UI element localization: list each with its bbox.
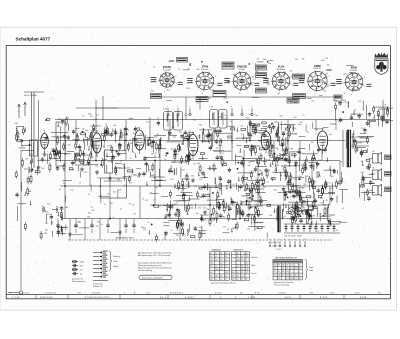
svg-text:560: 560 xyxy=(251,215,254,217)
svg-text:8,4: 8,4 xyxy=(237,253,239,255)
svg-text:0,3: 0,3 xyxy=(299,268,301,270)
svg-text:100k: 100k xyxy=(80,261,84,263)
svg-text:0,5M: 0,5M xyxy=(320,60,324,62)
svg-text:70: 70 xyxy=(326,208,328,210)
svg-text:5k: 5k xyxy=(210,216,212,218)
svg-text:12: 12 xyxy=(225,279,227,281)
svg-text:Alle Spannungen 110 - 220 2V: Alle Spannungen 110 - 220 2V veränd xyxy=(138,254,170,257)
svg-text:47k: 47k xyxy=(66,118,69,120)
svg-text:220: 220 xyxy=(84,172,87,174)
svg-text:50p: 50p xyxy=(327,64,330,66)
svg-text:1n: 1n xyxy=(230,121,232,123)
svg-text:50p: 50p xyxy=(117,168,120,170)
svg-text:5 4 3 2 1: 5 4 3 2 1 xyxy=(278,293,287,295)
svg-text:100k: 100k xyxy=(126,167,130,169)
svg-text:47k: 47k xyxy=(218,177,221,179)
svg-text:12k: 12k xyxy=(176,235,179,237)
svg-text:300: 300 xyxy=(118,143,121,145)
svg-text:45: 45 xyxy=(220,253,222,255)
svg-text:27k: 27k xyxy=(183,195,186,197)
svg-text:560: 560 xyxy=(250,135,253,137)
svg-text:0,5M: 0,5M xyxy=(74,226,79,228)
svg-text:10n: 10n xyxy=(284,124,287,126)
svg-text:15k: 15k xyxy=(247,229,250,231)
svg-text:110 125 220V~ 50Hz: 110 125 220V~ 50Hz xyxy=(284,236,302,238)
svg-text:0,1: 0,1 xyxy=(80,269,83,271)
svg-text:47k: 47k xyxy=(108,161,111,163)
svg-text:0,25: 0,25 xyxy=(225,207,229,209)
svg-text:300: 300 xyxy=(247,165,250,167)
svg-text:2M: 2M xyxy=(291,148,294,150)
svg-text:10n: 10n xyxy=(179,131,182,133)
svg-text:0,5M: 0,5M xyxy=(107,146,112,148)
svg-text:5n: 5n xyxy=(232,146,234,148)
svg-text:30p: 30p xyxy=(268,63,271,65)
svg-text:220k: 220k xyxy=(223,98,227,100)
svg-text:6 1 4 8: 6 1 4 8 xyxy=(360,297,367,299)
svg-text:2M: 2M xyxy=(200,197,203,199)
svg-text:45: 45 xyxy=(246,253,248,255)
svg-text:o: o xyxy=(251,106,252,108)
svg-text:Taste in Tastenfolge: Taste in Tastenfolge xyxy=(274,284,289,287)
svg-text:100k: 100k xyxy=(298,176,302,178)
svg-text:5k: 5k xyxy=(142,199,144,201)
svg-text:1M: 1M xyxy=(219,116,222,118)
svg-text:5k: 5k xyxy=(132,205,134,207)
svg-text:68p: 68p xyxy=(233,74,236,76)
svg-text:Alle Spannungen 110V Stel. 20: Alle Spannungen 110V Stel. 20 mV/Vrg xyxy=(138,252,171,255)
svg-text:50p: 50p xyxy=(113,125,116,127)
svg-text:12k: 12k xyxy=(263,187,266,189)
svg-text:70: 70 xyxy=(384,104,386,106)
svg-text:50p: 50p xyxy=(249,173,252,175)
svg-text:2 6 5 1: 2 6 5 1 xyxy=(285,297,292,299)
svg-text:500: 500 xyxy=(113,192,116,194)
svg-text:7: 7 xyxy=(299,271,300,273)
svg-text:4,7k: 4,7k xyxy=(327,182,331,184)
svg-text:8,4: 8,4 xyxy=(237,272,239,274)
svg-text:25: 25 xyxy=(159,185,161,187)
svg-text:50p: 50p xyxy=(277,140,280,142)
svg-text:45: 45 xyxy=(274,271,276,273)
svg-text:5n: 5n xyxy=(148,222,150,224)
svg-text:220: 220 xyxy=(225,272,228,274)
svg-text:5n: 5n xyxy=(116,175,118,177)
svg-text:4Ω 5W: 4Ω 5W xyxy=(356,143,362,145)
svg-text:5k: 5k xyxy=(335,100,337,102)
svg-text:47k: 47k xyxy=(198,208,201,210)
svg-text:220k: 220k xyxy=(281,132,285,134)
svg-text:12k: 12k xyxy=(311,158,314,160)
svg-text:100k: 100k xyxy=(251,146,255,148)
svg-text:50p: 50p xyxy=(196,213,199,215)
svg-text:3k3: 3k3 xyxy=(184,115,187,117)
svg-text:220: 220 xyxy=(220,266,223,268)
svg-text:9. 0.: 9. 0. xyxy=(146,293,150,295)
svg-text:95: 95 xyxy=(241,269,243,271)
svg-text:95: 95 xyxy=(241,272,243,274)
svg-text:0,1: 0,1 xyxy=(294,192,297,194)
svg-text:220: 220 xyxy=(246,256,249,258)
svg-text:8,4: 8,4 xyxy=(282,271,284,273)
svg-text:2M: 2M xyxy=(145,200,148,202)
svg-text:6,8: 6,8 xyxy=(290,70,293,72)
svg-text:12k: 12k xyxy=(90,116,93,118)
svg-text:0,3: 0,3 xyxy=(282,268,284,270)
svg-text:500: 500 xyxy=(130,143,133,145)
svg-text:7: 7 xyxy=(232,269,233,271)
svg-text:500: 500 xyxy=(280,116,283,118)
svg-text:8k: 8k xyxy=(153,66,155,68)
svg-text:500: 500 xyxy=(283,160,286,162)
svg-text:25: 25 xyxy=(157,118,159,120)
svg-text:1k: 1k xyxy=(354,110,356,112)
svg-text:6,8: 6,8 xyxy=(160,139,163,141)
svg-text:300: 300 xyxy=(197,69,200,71)
svg-text:15k: 15k xyxy=(193,164,196,166)
svg-text:4,7k: 4,7k xyxy=(358,101,361,103)
svg-text:9 . 6 4 2 1: 9 . 6 4 2 1 xyxy=(185,297,195,299)
svg-text:5k: 5k xyxy=(151,154,153,156)
svg-text:7 8 9 0: 7 8 9 0 xyxy=(276,249,282,251)
svg-text:220k: 220k xyxy=(266,170,270,172)
svg-text:s: s xyxy=(40,132,41,134)
svg-text:5n: 5n xyxy=(120,209,122,211)
svg-text:k: k xyxy=(176,75,177,77)
svg-text:0,1: 0,1 xyxy=(342,208,345,210)
svg-text:Mittel: Mittel xyxy=(251,264,256,267)
svg-text:100k: 100k xyxy=(275,165,279,167)
svg-text:2M: 2M xyxy=(232,228,235,230)
svg-text:70: 70 xyxy=(145,144,147,146)
svg-text:7: 7 xyxy=(299,239,300,241)
svg-text:95: 95 xyxy=(241,259,243,261)
svg-text:2M: 2M xyxy=(26,159,29,161)
svg-text:0,3: 0,3 xyxy=(215,259,217,261)
svg-text:6: 6 xyxy=(215,76,216,78)
svg-text:1M: 1M xyxy=(45,229,48,231)
svg-text:68p: 68p xyxy=(251,83,254,85)
svg-text:300: 300 xyxy=(320,198,323,200)
svg-text:6 4 8 1 2 3 4 5: 6 4 8 1 2 3 4 5 xyxy=(40,297,54,299)
svg-text:0,1: 0,1 xyxy=(123,129,126,131)
svg-text:30p: 30p xyxy=(264,74,267,76)
svg-text:Kurz &: Kurz & xyxy=(251,273,257,275)
svg-text:6,8: 6,8 xyxy=(340,161,343,163)
svg-text:4: 4 xyxy=(284,239,285,241)
svg-text:70: 70 xyxy=(170,230,172,232)
svg-text:45: 45 xyxy=(241,256,243,258)
svg-text:27k: 27k xyxy=(107,194,110,196)
svg-text:0,1: 0,1 xyxy=(183,235,186,237)
svg-text:1: 1 xyxy=(269,239,270,241)
svg-text:1: 1 xyxy=(314,94,315,96)
svg-text:norm: norm xyxy=(309,270,314,272)
svg-text:5n: 5n xyxy=(174,215,176,217)
svg-text:8,4: 8,4 xyxy=(210,272,212,274)
svg-text:0,1: 0,1 xyxy=(176,154,179,156)
svg-text:47k: 47k xyxy=(302,59,305,61)
svg-text:5k: 5k xyxy=(306,161,308,163)
svg-text:0,3: 0,3 xyxy=(210,256,212,258)
svg-text:45: 45 xyxy=(274,268,276,270)
svg-text:25: 25 xyxy=(179,223,181,225)
svg-text:0,3: 0,3 xyxy=(225,266,227,268)
svg-text:3k3: 3k3 xyxy=(41,168,44,170)
svg-text:12k: 12k xyxy=(146,122,149,124)
svg-text:5k: 5k xyxy=(80,273,82,275)
svg-text:47k: 47k xyxy=(80,265,83,267)
svg-text:6,8: 6,8 xyxy=(324,90,327,92)
svg-text:d: d xyxy=(317,129,318,131)
svg-text:4,7k: 4,7k xyxy=(244,190,248,192)
svg-text:Uf=6,3V: Uf=6,3V xyxy=(202,69,210,71)
svg-text:560: 560 xyxy=(233,203,236,205)
svg-text:27k: 27k xyxy=(223,226,226,228)
svg-text:Vorkreis: Vorkreis xyxy=(251,257,258,259)
svg-text:alle Vorschriftung: alle Vorschriftung xyxy=(138,269,152,272)
svg-text:Stellung: Stellung xyxy=(113,255,120,258)
svg-text:0,1: 0,1 xyxy=(266,182,269,184)
svg-text:560: 560 xyxy=(181,169,184,171)
svg-text:0,25: 0,25 xyxy=(318,213,322,215)
svg-text:2k: 2k xyxy=(255,63,257,65)
svg-text:3k3: 3k3 xyxy=(326,86,329,88)
svg-text:15k: 15k xyxy=(259,133,262,135)
svg-text:560: 560 xyxy=(151,91,154,93)
svg-text:7,5 4 1 L: 7,5 4 1 L xyxy=(22,293,31,295)
svg-text:50p: 50p xyxy=(95,166,98,168)
svg-text:0,1: 0,1 xyxy=(214,91,217,93)
svg-text:g1: g1 xyxy=(252,76,254,78)
svg-text:560: 560 xyxy=(262,226,265,228)
svg-text:k: k xyxy=(253,84,254,86)
svg-text:15k: 15k xyxy=(45,223,48,225)
svg-text:220: 220 xyxy=(203,208,206,210)
svg-text:3k3: 3k3 xyxy=(193,120,196,122)
svg-text:27k: 27k xyxy=(240,126,243,128)
svg-text:100k: 100k xyxy=(274,121,278,123)
svg-text:0,25: 0,25 xyxy=(221,153,225,155)
svg-text:500: 500 xyxy=(171,149,174,151)
svg-text:0,3: 0,3 xyxy=(220,263,222,265)
svg-text:1,2: 1,2 xyxy=(299,278,301,280)
svg-text:4,7k: 4,7k xyxy=(185,184,189,186)
svg-text:5n: 5n xyxy=(129,158,131,160)
svg-text:5k: 5k xyxy=(225,115,227,117)
svg-text:12: 12 xyxy=(220,256,222,258)
svg-text:560: 560 xyxy=(67,145,70,147)
svg-text:15k: 15k xyxy=(47,204,50,206)
svg-text:1,2: 1,2 xyxy=(220,269,222,271)
svg-text:0,5M: 0,5M xyxy=(171,162,176,164)
svg-text:6: 6 xyxy=(291,76,292,78)
svg-text:15k: 15k xyxy=(148,118,151,120)
svg-text:o: o xyxy=(167,106,168,108)
svg-text:500: 500 xyxy=(85,130,88,132)
svg-text:3k3: 3k3 xyxy=(136,128,139,130)
svg-text:5k: 5k xyxy=(255,204,257,206)
svg-text:6,8: 6,8 xyxy=(322,140,325,142)
svg-text:47k: 47k xyxy=(97,177,100,179)
svg-text:560: 560 xyxy=(275,84,278,86)
svg-text:Wippe: Wippe xyxy=(113,266,118,268)
svg-text:6,8: 6,8 xyxy=(136,142,139,144)
svg-text:2k: 2k xyxy=(317,231,319,233)
svg-text:12k: 12k xyxy=(216,148,219,150)
svg-text:27k: 27k xyxy=(133,214,136,216)
svg-text:240: 240 xyxy=(15,123,18,125)
svg-text:1,2: 1,2 xyxy=(241,275,243,277)
svg-text:30p: 30p xyxy=(95,226,98,228)
svg-text:WIDERSTD: WIDERSTD xyxy=(234,249,245,251)
svg-text:3k3: 3k3 xyxy=(339,180,342,182)
svg-text:2k: 2k xyxy=(343,93,345,95)
svg-text:0,25: 0,25 xyxy=(267,84,271,86)
svg-text:1n: 1n xyxy=(129,140,131,142)
svg-text:3: 3 xyxy=(364,77,365,79)
svg-text:6,8: 6,8 xyxy=(60,137,63,139)
svg-text:560: 560 xyxy=(87,216,90,218)
svg-text:70: 70 xyxy=(250,207,252,209)
svg-text:30p: 30p xyxy=(217,196,220,198)
svg-text:560: 560 xyxy=(191,176,194,178)
svg-text:300: 300 xyxy=(28,191,31,193)
svg-text:Änderungen vorbehalten: Änderungen vorbehalten xyxy=(142,276,163,279)
svg-text:1,2: 1,2 xyxy=(220,279,222,281)
svg-text:95: 95 xyxy=(210,275,212,277)
svg-text:7 . 9 4 4: 7 . 9 4 4 xyxy=(248,297,256,299)
svg-text:100k: 100k xyxy=(92,132,96,134)
svg-text:5n: 5n xyxy=(236,138,238,140)
svg-text:0,3: 0,3 xyxy=(278,278,280,280)
svg-text:12: 12 xyxy=(299,275,301,277)
svg-text:25: 25 xyxy=(79,182,81,184)
svg-text:1: 1 xyxy=(239,93,240,95)
svg-text:7: 7 xyxy=(246,259,247,261)
svg-text:o: o xyxy=(177,106,178,108)
svg-text:8,4: 8,4 xyxy=(210,266,212,268)
svg-text:1k: 1k xyxy=(104,204,106,206)
svg-text:1n: 1n xyxy=(120,145,122,147)
svg-text:2k: 2k xyxy=(82,115,84,117)
svg-text:2k: 2k xyxy=(179,163,181,165)
svg-text:a b c d e f g h: a b c d e f g h xyxy=(268,242,279,244)
svg-text:3k3: 3k3 xyxy=(44,233,47,235)
svg-text:3: 3 xyxy=(279,239,280,241)
svg-text:0,25: 0,25 xyxy=(165,153,169,155)
svg-text:10n: 10n xyxy=(329,134,332,136)
svg-text:3k3: 3k3 xyxy=(167,90,170,92)
svg-text:10n: 10n xyxy=(236,82,239,84)
svg-text:8,4: 8,4 xyxy=(286,271,288,273)
svg-text:25: 25 xyxy=(295,133,297,135)
svg-text:1k: 1k xyxy=(133,152,135,154)
svg-text:8 7 6 5 4 3 2 1.: 8 7 6 5 4 3 2 1. xyxy=(170,293,184,295)
svg-text:Rohrenvoltmeter: Rohrenvoltmeter xyxy=(72,280,86,283)
svg-text:68p: 68p xyxy=(299,199,302,201)
svg-text:15k: 15k xyxy=(338,121,341,123)
svg-text:500: 500 xyxy=(259,140,262,142)
svg-text:3k3: 3k3 xyxy=(133,133,136,135)
svg-text:0,1: 0,1 xyxy=(181,191,184,193)
svg-text:4,7k: 4,7k xyxy=(323,205,327,207)
svg-text:0,3: 0,3 xyxy=(246,269,248,271)
svg-text:100k: 100k xyxy=(189,208,193,210)
svg-text:15k: 15k xyxy=(255,159,258,161)
svg-text:0,5M: 0,5M xyxy=(296,204,301,206)
svg-text:Schaltplan 4077: Schaltplan 4077 xyxy=(16,37,51,42)
svg-text:4,7k: 4,7k xyxy=(96,114,100,116)
svg-text:3 3 . 4: 3 3 . 4 xyxy=(160,297,166,299)
svg-text:0,1: 0,1 xyxy=(91,207,94,209)
svg-text:25: 25 xyxy=(189,131,191,133)
svg-text:Schalter 12t: Schalter 12t xyxy=(93,285,103,288)
svg-text:220: 220 xyxy=(269,215,272,217)
svg-text:2: 2 xyxy=(274,239,275,241)
svg-text:12k: 12k xyxy=(293,117,296,119)
svg-text:220: 220 xyxy=(190,205,193,207)
svg-text:95: 95 xyxy=(299,264,301,266)
svg-text:0,5M: 0,5M xyxy=(47,214,52,216)
svg-text:0,1: 0,1 xyxy=(81,163,84,165)
svg-text:6: 6 xyxy=(202,93,203,95)
svg-text:SPANNGN: SPANNGN xyxy=(212,248,222,251)
svg-text:27k: 27k xyxy=(196,102,199,104)
svg-text:5k: 5k xyxy=(178,69,180,71)
svg-text:6: 6 xyxy=(294,239,295,241)
svg-text:4 5 6 7 8 .: 4 5 6 7 8 . xyxy=(92,293,101,295)
svg-text:0,5M: 0,5M xyxy=(255,228,260,230)
svg-text:1k: 1k xyxy=(326,73,328,75)
svg-text:4,7k: 4,7k xyxy=(343,82,346,84)
svg-text:45: 45 xyxy=(225,256,227,258)
svg-text:100k: 100k xyxy=(276,137,280,139)
svg-text:30p: 30p xyxy=(314,228,317,230)
svg-text:Ia=48mA: Ia=48mA xyxy=(277,68,285,71)
svg-text:5n: 5n xyxy=(285,139,287,141)
svg-text:5: 5 xyxy=(216,84,217,86)
svg-text:7: 7 xyxy=(210,269,211,271)
svg-text:Uf=6,3V: Uf=6,3V xyxy=(314,68,322,70)
svg-text:8k: 8k xyxy=(157,134,159,136)
svg-text:95: 95 xyxy=(278,271,280,273)
svg-text:220: 220 xyxy=(210,259,213,261)
svg-text:220k: 220k xyxy=(296,210,300,212)
svg-text:12k: 12k xyxy=(124,185,127,187)
svg-text:Folge: Folge xyxy=(309,267,314,269)
svg-text:45: 45 xyxy=(290,275,292,277)
svg-text:5n: 5n xyxy=(256,178,258,180)
svg-text:0,1: 0,1 xyxy=(294,165,297,167)
svg-text:8k: 8k xyxy=(59,189,61,191)
svg-text:12k: 12k xyxy=(268,142,271,144)
svg-text:95: 95 xyxy=(220,275,222,277)
svg-text:1,2: 1,2 xyxy=(210,253,212,255)
svg-text:1k: 1k xyxy=(307,132,309,134)
svg-text:220: 220 xyxy=(286,275,289,277)
svg-text:500: 500 xyxy=(294,217,297,219)
svg-text:68p: 68p xyxy=(298,179,301,181)
svg-text:0,5M: 0,5M xyxy=(343,102,347,104)
svg-text:25: 25 xyxy=(317,75,319,77)
svg-text:95: 95 xyxy=(232,275,234,277)
svg-text:560: 560 xyxy=(269,153,272,155)
svg-text:70: 70 xyxy=(277,149,279,151)
svg-text:0,3: 0,3 xyxy=(286,278,288,280)
svg-text:4 3 2 1: 4 3 2 1 xyxy=(215,293,222,295)
svg-text:0,3: 0,3 xyxy=(237,266,239,268)
